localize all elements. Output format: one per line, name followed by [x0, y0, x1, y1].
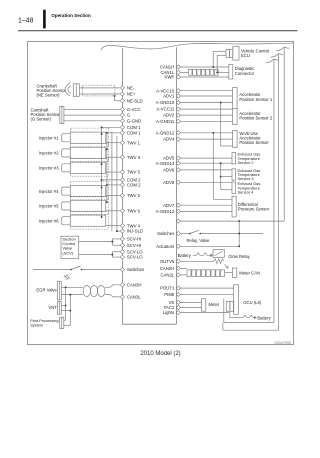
svg-text:Injector #3: Injector #3	[39, 166, 59, 171]
svg-text:PIM5: PIM5	[164, 292, 175, 297]
svg-text:A-GND11: A-GND11	[156, 119, 175, 124]
svg-text:SCV-LO: SCV-LO	[127, 249, 143, 254]
svg-text:Connector: Connector	[235, 71, 255, 76]
svg-text:Switches: Switches	[127, 267, 144, 272]
svg-text:Injector #4: Injector #4	[39, 189, 59, 194]
svg-text:ADV4: ADV4	[163, 137, 175, 142]
svg-text:TWV 1: TWV 1	[127, 140, 141, 145]
svg-text:Q004799E: Q004799E	[274, 341, 292, 345]
svg-text:ECU: ECU	[241, 53, 250, 58]
svg-text:CAN2L: CAN2L	[160, 273, 174, 278]
svg-text:ADV1: ADV1	[163, 94, 175, 99]
svg-text:TWV 3: TWV 3	[127, 155, 141, 160]
svg-text:ADV2: ADV2	[163, 113, 175, 118]
svg-text:Injector #5: Injector #5	[39, 204, 59, 209]
svg-text:EGR Valve: EGR Valve	[36, 288, 57, 293]
svg-text:CAN1H: CAN1H	[160, 65, 175, 70]
svg-text:Relay, Valve: Relay, Valve	[187, 238, 211, 243]
svg-text:INJ-SLD: INJ-SLD	[127, 229, 143, 234]
svg-text:Actuators: Actuators	[156, 244, 174, 249]
svg-text:ADV7: ADV7	[163, 203, 175, 208]
svg-text:2010 Model (2): 2010 Model (2)	[140, 351, 180, 357]
svg-text:(NE Sensor): (NE Sensor)	[37, 93, 61, 98]
svg-text:1–48: 1–48	[18, 18, 34, 25]
svg-text:Injector #6: Injector #6	[39, 218, 59, 223]
svg-text:NE-: NE-	[127, 86, 135, 91]
svg-text:Battery: Battery	[178, 253, 192, 258]
svg-text:SCV-LO: SCV-LO	[127, 255, 143, 260]
svg-text:Injector #1: Injector #1	[39, 135, 59, 140]
svg-text:Position Sensor 1: Position Sensor 1	[239, 97, 272, 102]
svg-text:Sensor 4: Sensor 4	[238, 190, 255, 195]
svg-text:SCV-HI: SCV-HI	[127, 237, 141, 242]
svg-text:TWV 2: TWV 2	[127, 193, 141, 198]
svg-text:CAN3L: CAN3L	[127, 295, 141, 300]
svg-text:CAN3H: CAN3H	[127, 282, 142, 287]
svg-text:OUTV5: OUTV5	[160, 259, 175, 264]
svg-text:NE-SLD: NE-SLD	[127, 98, 143, 103]
svg-text:A-VCC10: A-VCC10	[156, 88, 175, 93]
svg-text:Sensor 2: Sensor 2	[238, 160, 255, 165]
svg-text:NE+: NE+	[127, 92, 136, 97]
svg-text:TWV 6: TWV 6	[127, 208, 141, 213]
svg-text:ADV6: ADV6	[163, 168, 175, 173]
svg-text:Lights: Lights	[163, 310, 174, 315]
svg-text:GCU (L6): GCU (L6)	[243, 300, 262, 305]
svg-text:Battery: Battery	[257, 316, 271, 321]
svg-text:Position Sensor: Position Sensor	[239, 140, 269, 145]
svg-text:VNT: VNT	[48, 305, 57, 310]
svg-text:G-VCC: G-VCC	[127, 107, 141, 112]
svg-text:TWV 5: TWV 5	[127, 170, 141, 175]
svg-text:Meter CAN: Meter CAN	[239, 271, 260, 276]
svg-text:Glow Relay: Glow Relay	[228, 254, 250, 259]
svg-text:Operation Section: Operation Section	[51, 13, 91, 18]
svg-text:A-GND12: A-GND12	[156, 130, 175, 135]
svg-text:TWV 4: TWV 4	[127, 223, 141, 228]
svg-text:COM 2: COM 2	[127, 183, 141, 188]
svg-text:COM 1: COM 1	[127, 125, 141, 130]
svg-text:G-GND: G-GND	[127, 118, 141, 123]
svg-text:A-GND12: A-GND12	[156, 209, 175, 214]
svg-text:Switches: Switches	[157, 231, 174, 236]
svg-text:Position Sensor 2: Position Sensor 2	[239, 115, 272, 120]
svg-text:ADV8: ADV8	[163, 180, 175, 185]
svg-text:System: System	[30, 322, 43, 327]
svg-text:Pressure Sensor: Pressure Sensor	[238, 207, 270, 212]
svg-text:KWP: KWP	[165, 75, 175, 80]
svg-text:(SCV): (SCV)	[62, 250, 74, 255]
svg-text:POUT1: POUT1	[160, 286, 175, 291]
svg-text:Meter: Meter	[209, 302, 220, 307]
svg-text:(G Sensor): (G Sensor)	[31, 117, 52, 122]
svg-text:A-GND10: A-GND10	[156, 100, 175, 105]
svg-text:Injector #2: Injector #2	[39, 151, 59, 156]
svg-text:A-VCC11: A-VCC11	[156, 107, 174, 112]
svg-text:CAN2H: CAN2H	[160, 266, 175, 271]
svg-text:SCV-HI: SCV-HI	[127, 243, 141, 248]
svg-text:A-GND13: A-GND13	[156, 161, 175, 166]
svg-text:COM 1: COM 1	[127, 130, 141, 135]
